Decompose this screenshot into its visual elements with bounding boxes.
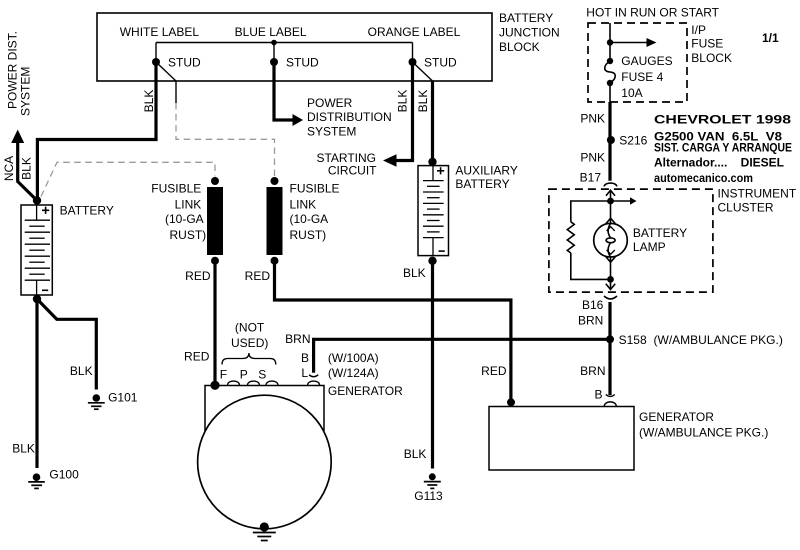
svg-text:(W/124A): (W/124A)	[328, 366, 379, 380]
svg-text:CHEVROLET 1998: CHEVROLET 1998	[654, 112, 791, 126]
svg-text:BRN: BRN	[578, 313, 603, 327]
svg-text:BLOCK: BLOCK	[691, 51, 732, 65]
svg-text:B: B	[594, 387, 602, 401]
svg-text:HOT IN RUN OR START: HOT IN RUN OR START	[586, 6, 719, 20]
svg-text:G100: G100	[49, 468, 79, 482]
svg-text:CIRCUIT: CIRCUIT	[328, 163, 377, 177]
svg-text:(W/100A): (W/100A)	[328, 351, 379, 365]
svg-text:1/1: 1/1	[762, 31, 779, 45]
svg-text:RED: RED	[245, 269, 271, 283]
svg-text:STUD: STUD	[286, 56, 319, 70]
svg-text:SYSTEM: SYSTEM	[307, 125, 356, 139]
svg-text:BLOCK: BLOCK	[499, 40, 540, 54]
svg-text:SYSTEM: SYSTEM	[19, 67, 33, 116]
svg-text:BLK: BLK	[416, 90, 430, 113]
svg-text:S: S	[258, 367, 266, 381]
svg-text:WHITE LABEL: WHITE LABEL	[120, 25, 200, 39]
svg-text:BLK: BLK	[403, 266, 426, 280]
svg-text:BLK: BLK	[404, 447, 427, 461]
svg-text:RUST): RUST)	[290, 228, 327, 242]
svg-text:BRN: BRN	[580, 364, 605, 378]
svg-text:BLK: BLK	[70, 364, 93, 378]
svg-text:GAUGES: GAUGES	[621, 54, 672, 68]
svg-text:RED: RED	[184, 349, 210, 363]
svg-text:DISTRIBUTION: DISTRIBUTION	[307, 110, 392, 124]
svg-text:FUSE 4: FUSE 4	[621, 70, 663, 84]
svg-text:CLUSTER: CLUSTER	[718, 201, 774, 215]
svg-text:BATTERY: BATTERY	[499, 11, 553, 25]
svg-text:SIST. CARGA Y ARRANQUE: SIST. CARGA Y ARRANQUE	[654, 141, 792, 155]
svg-text:RED: RED	[481, 364, 507, 378]
svg-text:Alternador.... DIESEL: Alternador.... DIESEL	[654, 156, 784, 170]
svg-text:(W/AMBULANCE PKG.): (W/AMBULANCE PKG.)	[639, 426, 768, 440]
svg-text:BATTERY: BATTERY	[633, 226, 687, 240]
svg-text:RUST): RUST)	[170, 228, 207, 242]
svg-text:ORANGE LABEL: ORANGE LABEL	[368, 25, 461, 39]
svg-text:LINK: LINK	[175, 197, 202, 211]
svg-text:POWER DIST.: POWER DIST.	[6, 31, 20, 109]
svg-text:BATTERY: BATTERY	[455, 177, 509, 191]
svg-text:(NOT: (NOT	[235, 321, 265, 335]
svg-text:JUNCTION: JUNCTION	[499, 25, 560, 39]
svg-text:BRN: BRN	[285, 332, 310, 346]
svg-text:STUD: STUD	[424, 56, 457, 70]
svg-text:F: F	[220, 367, 227, 381]
svg-text:INSTRUMENT: INSTRUMENT	[718, 187, 797, 201]
svg-text:automecanico.com: automecanico.com	[654, 171, 753, 185]
svg-text:FUSE: FUSE	[691, 37, 723, 51]
svg-text:G113: G113	[414, 489, 443, 503]
svg-text:P: P	[240, 367, 248, 381]
svg-text:USED): USED)	[231, 336, 268, 350]
svg-text:(W/AMBULANCE PKG.): (W/AMBULANCE PKG.)	[654, 333, 783, 347]
svg-text:10A: 10A	[621, 86, 642, 100]
svg-text:(10-GA: (10-GA	[290, 212, 329, 226]
svg-text:BLK: BLK	[396, 90, 410, 113]
svg-text:L: L	[301, 366, 308, 380]
svg-text:FUSIBLE: FUSIBLE	[290, 182, 340, 196]
svg-text:I/P: I/P	[691, 23, 706, 37]
svg-text:PNK: PNK	[580, 151, 605, 165]
svg-text:GENERATOR: GENERATOR	[639, 410, 714, 424]
svg-text:LINK: LINK	[290, 197, 317, 211]
svg-text:G101: G101	[108, 390, 138, 404]
svg-text:B17: B17	[580, 171, 602, 185]
svg-text:AUXILIARY: AUXILIARY	[455, 163, 517, 177]
svg-text:BATTERY: BATTERY	[60, 203, 114, 217]
svg-text:PNK: PNK	[580, 112, 605, 126]
svg-text:S216: S216	[619, 134, 647, 148]
svg-text:B16: B16	[582, 298, 604, 312]
svg-text:FUSIBLE: FUSIBLE	[151, 182, 201, 196]
svg-text:B: B	[301, 351, 309, 365]
svg-text:BLUE LABEL: BLUE LABEL	[235, 25, 307, 39]
svg-text:BLK: BLK	[20, 157, 34, 180]
svg-text:RED: RED	[185, 269, 211, 283]
svg-text:S158: S158	[619, 333, 647, 347]
svg-text:(10-GA: (10-GA	[165, 212, 204, 226]
svg-text:BLK: BLK	[142, 90, 156, 113]
svg-text:GENERATOR: GENERATOR	[328, 384, 403, 398]
svg-text:POWER: POWER	[307, 96, 353, 110]
svg-text:NCA: NCA	[2, 156, 16, 181]
svg-text:LAMP: LAMP	[633, 240, 666, 254]
svg-text:BLK: BLK	[12, 442, 35, 456]
svg-text:STUD: STUD	[168, 56, 201, 70]
